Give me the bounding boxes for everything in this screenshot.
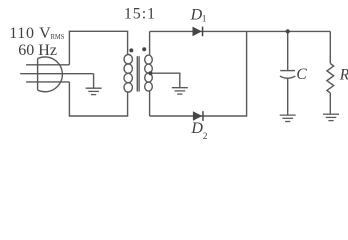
svg-text:R: R [339,67,348,84]
svg-text:60 Hz: 60 Hz [18,42,57,59]
svg-text:D: D [190,7,203,24]
svg-text:1: 1 [202,15,207,25]
svg-text:RMS: RMS [51,32,65,41]
svg-text:2: 2 [203,132,208,142]
svg-text:C: C [296,66,307,83]
svg-text:110 V: 110 V [9,25,51,42]
svg-text:D: D [190,120,203,137]
svg-text:15:1: 15:1 [124,6,156,23]
